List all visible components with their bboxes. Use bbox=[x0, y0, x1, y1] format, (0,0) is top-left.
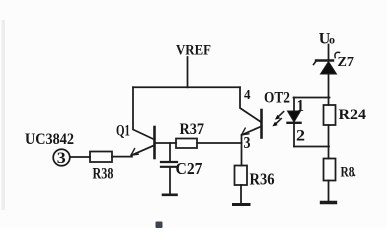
faint left edge streak bbox=[2, 20, 6, 210]
wire VREF lead bbox=[187, 57, 189, 87]
svg-text:OT2: OT2 bbox=[264, 90, 290, 107]
svg-text:2: 2 bbox=[296, 128, 305, 145]
wire R37 to node 3 bbox=[197, 142, 242, 144]
svg-text:VREF: VREF bbox=[176, 43, 211, 59]
resistor R8 bbox=[324, 159, 336, 181]
wire pin3 to R38 bbox=[70, 156, 90, 158]
pin 3 of UC3842 bbox=[53, 149, 70, 166]
svg-text:R36: R36 bbox=[250, 170, 275, 189]
light arrows of optocoupler bbox=[276, 112, 284, 124]
transistor Q1 bbox=[153, 127, 156, 158]
capacitor C27 bbox=[169, 143, 171, 161]
optocoupler OT2 phototransistor emitter bbox=[242, 127, 261, 135]
svg-text:Q1: Q1 bbox=[116, 123, 130, 140]
zener diode Z7 bbox=[316, 59, 333, 61]
wire LED bottom to R24/R8 junction bbox=[294, 146, 329, 148]
svg-text:R37: R37 bbox=[180, 121, 205, 138]
svg-text:3: 3 bbox=[57, 150, 66, 167]
svg-text:C27: C27 bbox=[176, 159, 203, 178]
svg-text:4: 4 bbox=[244, 88, 251, 103]
wire top rail bbox=[133, 86, 240, 88]
LED of OT2 bbox=[288, 111, 301, 122]
transistor Q1 emitter bbox=[132, 145, 155, 155]
svg-text:R38: R38 bbox=[93, 166, 114, 183]
optocoupler OT2 phototransistor bar bbox=[260, 110, 263, 138]
wire Uo lead bbox=[328, 45, 330, 60]
resistor R36 bbox=[235, 166, 248, 186]
wire Q1 base to R37 bbox=[155, 142, 176, 144]
resistor R24 bbox=[324, 105, 336, 125]
optocoupler OT2 phototransistor collector bbox=[240, 87, 261, 122]
ground R36 bbox=[240, 185, 242, 203]
wire R24 to R8 bbox=[328, 125, 330, 159]
wire Q1 collector drop bbox=[133, 87, 154, 139]
watermark fragment bottom center bbox=[156, 222, 163, 229]
resistor R37 bbox=[176, 139, 197, 149]
svg-text:R24: R24 bbox=[339, 107, 367, 123]
LED anode lead bbox=[293, 98, 295, 112]
wire R38 to Q1 emitter bbox=[112, 156, 132, 158]
LED of OT2: top wire bbox=[294, 97, 330, 99]
LED cathode lead bbox=[293, 124, 295, 147]
svg-text:Z7: Z7 bbox=[338, 55, 355, 70]
svg-text:o: o bbox=[329, 33, 335, 47]
svg-text:3: 3 bbox=[244, 133, 251, 152]
resistor R38 bbox=[90, 152, 112, 163]
svg-text:UC3842: UC3842 bbox=[25, 131, 74, 148]
wire node 3 down to R36 bbox=[241, 135, 243, 166]
svg-text:R8: R8 bbox=[341, 165, 355, 181]
ground R8 bbox=[328, 181, 330, 202]
ground C27 bbox=[163, 194, 177, 197]
wire zener to R24 bbox=[328, 74, 330, 105]
